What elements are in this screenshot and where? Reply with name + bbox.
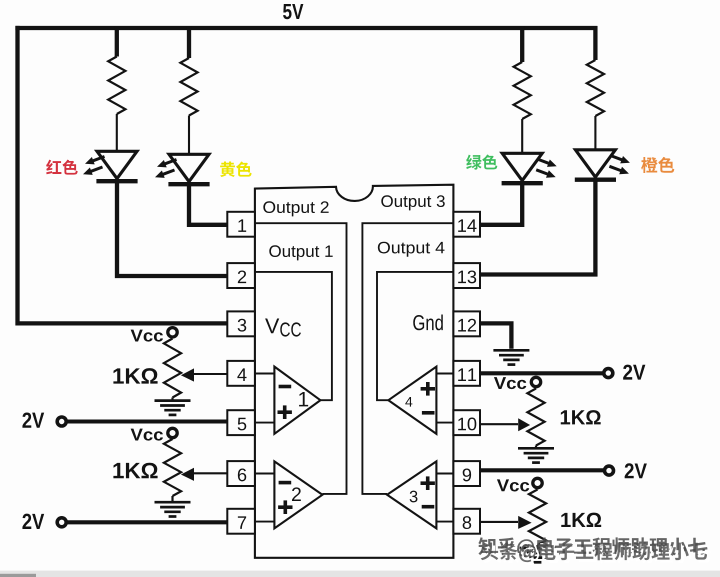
Vcc terminal (pot pin6) — [168, 428, 177, 437]
pin 9 box — [453, 461, 480, 486]
wire internal Output 4 net to comparator 4 output — [377, 272, 453, 400]
wire pin 9 to 2V terminal — [480, 468, 604, 472]
Vcc terminal (pot pin8) — [533, 478, 542, 487]
wire yellow LED cathode to pin 1 — [189, 184, 229, 225]
wire stub rail to resistor R-orange — [593, 26, 597, 60]
pin 7 box — [227, 509, 255, 534]
Vcc terminal (pot pin4) — [168, 328, 177, 337]
resistor (orange LED series) — [587, 60, 604, 116]
wire pin 12 to ground — [480, 323, 512, 348]
node 2V terminal (pin 11) — [604, 369, 613, 378]
label Output 2 — [263, 201, 328, 216]
wire 2V terminal to pin 7 — [67, 520, 228, 524]
pin 6 box — [227, 461, 255, 486]
node 2V terminal (pin 5) — [57, 417, 66, 426]
wire 2V terminal to pin 5 — [67, 419, 228, 423]
wire resistor to red LED anode — [116, 114, 118, 152]
pin 5 box — [227, 410, 255, 435]
wire stub rail to resistor R-green — [520, 26, 524, 62]
LED D-yellow 黄色 — [155, 154, 210, 184]
potentiometer 1K ohm (pot pin6) — [113, 438, 227, 502]
wire resistor to yellow LED anode — [188, 116, 190, 156]
pin 11 box — [453, 361, 480, 386]
wire stub rail to resistor R-red — [115, 26, 119, 57]
pin 2 box — [227, 263, 255, 288]
potentiometer 1K ohm (pot pin8) — [480, 488, 601, 548]
wire pin 7 to comparator input — [252, 521, 274, 523]
pin 1 box — [227, 212, 255, 237]
op-amp IC U1 (LM339 quad comparator) body — [255, 185, 454, 558]
op-amp comparator 2 — [274, 461, 322, 528]
node 5V label — [283, 4, 303, 19]
LED D-green 绿色 — [502, 153, 557, 183]
ground (pot pin4) — [155, 401, 191, 415]
wire pin 8 to comparator input — [436, 521, 456, 523]
wire internal Output 1 net to comparator 1 output — [255, 272, 332, 400]
wire pin 9 to comparator input — [436, 473, 456, 475]
label 绿色 (green) — [466, 154, 497, 169]
pin 10 box — [453, 410, 480, 435]
label Output 3 — [381, 195, 444, 210]
pin 8 box — [453, 509, 480, 534]
wire resistor to green LED anode — [521, 119, 523, 154]
wire pin 11 to 2V terminal — [480, 371, 603, 375]
watermark 头条@电子工程师助理小七 — [481, 542, 711, 565]
wire pin 5 to comparator input — [252, 422, 274, 424]
wire pin 4 to comparator input — [252, 373, 274, 375]
LED D-orange 橙色 — [575, 150, 630, 180]
watermark 知乎@电子工程师助理小七 — [478, 537, 708, 560]
wire left 5V rail down to pin 3 — [18, 26, 230, 324]
label Gnd (pin 12 function) — [413, 314, 443, 330]
wire orange LED cathode to pin 13 — [480, 180, 596, 275]
label 红色 (red) — [46, 160, 78, 175]
label Output 4 — [378, 242, 445, 257]
pin 12 box — [453, 311, 480, 336]
wire green LED cathode to pin 14 — [480, 183, 523, 225]
ground (pin 12) — [493, 350, 529, 364]
wire red LED cathode to pin 2 — [117, 181, 229, 276]
pin 4 box — [227, 361, 255, 386]
potentiometer 1K ohm (pot pin10) — [480, 387, 601, 448]
wire internal Output 2 net to comparator 2 output — [255, 223, 347, 494]
pin 13 box — [453, 263, 480, 288]
wire resistor to orange LED anode — [594, 116, 596, 150]
wire 5V top rail — [15, 26, 597, 30]
wire pin 11 to comparator input — [436, 373, 456, 375]
Vcc terminal (pot pin10) — [531, 377, 540, 386]
pin 14 box — [453, 212, 480, 237]
node 2V terminal (pin 9) — [605, 466, 614, 475]
resistor (green LED series) — [514, 62, 531, 119]
label Output 1 — [269, 245, 332, 260]
ground (pot pin8) — [520, 548, 556, 562]
node 2V terminal (pin 7) — [57, 518, 66, 527]
op-amp comparator 4 — [388, 367, 436, 434]
op-amp comparator 3 — [387, 461, 436, 528]
wire pin 10 to comparator input — [436, 422, 456, 424]
wire stub rail to resistor R-yellow — [187, 26, 191, 58]
op-amp comparator 1 — [274, 367, 320, 434]
label 黄色 (yellow) — [220, 161, 252, 177]
potentiometer 1K ohm (pot pin4) — [113, 337, 227, 400]
pin 3 box — [227, 311, 255, 336]
label 橙色 (orange) — [641, 157, 674, 173]
LED D-red 红色 — [83, 151, 138, 181]
ground (pot pin6) — [155, 502, 191, 516]
label VCC (pin 3 function) — [265, 319, 279, 334]
ground (pot pin10) — [518, 448, 554, 462]
resistor (red LED series) — [108, 57, 125, 115]
resistor (yellow LED series) — [180, 58, 197, 116]
wire pin 6 to comparator input — [252, 473, 274, 475]
wire internal Output 3 net to comparator 3 output — [362, 223, 453, 494]
